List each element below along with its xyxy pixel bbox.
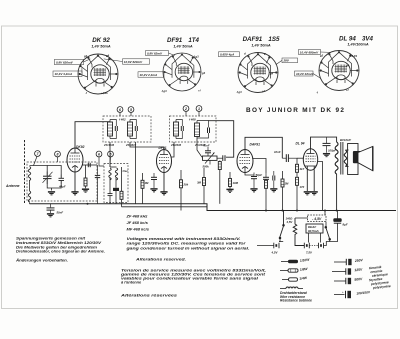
volume control cap 40nF [205, 147, 211, 156]
tube socket DL94 [319, 51, 359, 91]
oscillator coil unit (dashed box) [104, 164, 128, 203]
wire transformer to B+ [336, 174, 338, 211]
IF frequency note [126, 214, 150, 232]
svg-text:1/8W: 1/8W [300, 267, 309, 272]
tube DAF91 (diode + AF pentode) [237, 150, 253, 173]
voltage box DL94 left 1 [299, 50, 321, 55]
DL94 filament wires to ground [306, 170, 308, 191]
ground DK92 cathode [71, 192, 78, 195]
node circle 2 [183, 106, 189, 112]
wire IF1 pri bottom down [109, 142, 111, 167]
svg-text:1/4W: 1/4W [299, 276, 308, 281]
DAF91 plate wire up and over [245, 137, 282, 158]
detector resistor R5 [218, 161, 221, 204]
antenna lead-in (dashed) [24, 140, 26, 204]
node circle 1 [196, 106, 202, 112]
svg-text:7,5V: 7,5V [306, 250, 313, 254]
svg-text:JF 468 kc/s: JF 468 kc/s [127, 220, 149, 225]
svg-text:à l'antenne: à l'antenne [121, 279, 142, 284]
voltage box DK92 left 1 [55, 59, 84, 64]
DEAF90 battery box [306, 224, 323, 233]
svg-text:10M: 10M [233, 181, 239, 185]
volume potentiometer 500k [203, 153, 218, 164]
ground 100pF [323, 154, 330, 157]
svg-text:+f: +f [198, 89, 202, 93]
voltage box DK92 left 2 [53, 71, 82, 76]
lead DK92 box L2 [81, 67, 83, 73]
svg-text:Drehkondensator, ohne Signal a: Drehkondensator, ohne Signal an der Ante… [16, 249, 105, 254]
svg-text:-f,g3: -f,g3 [193, 55, 199, 59]
tuning capacitor C1 (variable) [43, 172, 53, 185]
wire DEAF box to battery [309, 233, 321, 243]
wire DAF91 cathode to bypass [245, 172, 254, 175]
ground DL94 b [311, 192, 318, 195]
AVC resistor R3 [141, 173, 144, 204]
tube socket DF91 [163, 53, 201, 91]
svg-text:DF91: DF91 [159, 146, 167, 150]
svg-text:Änderungen vorbehalten.: Änderungen vorbehalten. [15, 257, 68, 262]
legend resistor 1/4W [282, 276, 308, 281]
legend capacitor 125V ceramic [332, 265, 388, 278]
legend resistor 1/8W [280, 267, 309, 272]
resistor R9 1M [281, 171, 284, 211]
node circle 5 [108, 151, 114, 157]
wire IF1 return to bus [135, 142, 137, 204]
ground antenna circuit [48, 192, 55, 195]
German note [15, 236, 105, 263]
svg-text:g4: g4 [269, 72, 274, 76]
IF1 secondary winding [128, 122, 133, 136]
IF2 primary cap [176, 120, 183, 139]
osc coil winding b [115, 168, 117, 180]
loudspeaker [345, 144, 372, 175]
output transformer T1 [335, 142, 346, 175]
svg-text:+f: +f [346, 88, 350, 92]
svg-text:28V: 28V [283, 59, 290, 63]
legend capacitor 500V styroflex [334, 277, 391, 290]
svg-text:Altérations réservées: Altérations réservées [120, 293, 179, 298]
wire 5b down [130, 112, 132, 116]
voltage box DK92 right [123, 59, 150, 64]
svg-text:Antenne: Antenne [5, 184, 20, 188]
wires antenna circuit [30, 166, 62, 204]
svg-text:170: 170 [300, 185, 305, 189]
grid resistor R1 [84, 165, 87, 188]
svg-text:DK92: DK92 [76, 145, 85, 149]
switch S1 [279, 225, 284, 239]
svg-text:125V: 125V [354, 267, 363, 272]
resistor R8 below C8 [265, 179, 268, 210]
svg-text:10,2V 2,4mA: 10,2V 2,4mA [140, 73, 158, 77]
French note [120, 267, 266, 297]
svg-text:MF 468 kc/s: MF 468 kc/s [127, 227, 150, 232]
chassis bus line left [30, 204, 397, 211]
svg-text:Résistance bobinée: Résistance bobinée [280, 299, 312, 303]
svg-text:ZF/1K/6: ZF/1K/6 [103, 143, 115, 147]
connecting leads socket boxes [82, 52, 331, 79]
switch S2 [325, 227, 331, 241]
svg-text:+: + [342, 290, 344, 294]
svg-text:d: d [244, 52, 246, 56]
DL94 grid leak chain R10 [296, 158, 299, 172]
wire pot wiper stub [209, 160, 211, 164]
English note [125, 236, 249, 262]
IF2 secondary cap [197, 121, 210, 139]
legend resistor 1/10W [281, 258, 310, 264]
wire DAF91 screen to C8 [252, 159, 266, 174]
wire DK92 cathode to ground [74, 172, 76, 192]
wire node7 down [34, 156, 38, 165]
junction dots bus [87, 203, 338, 212]
-4,5V dashed box [308, 215, 327, 222]
svg-text:4k7: 4k7 [299, 167, 305, 171]
svg-text:100/150V: 100/150V [356, 290, 371, 295]
svg-text:0,8V 620mV: 0,8V 620mV [56, 60, 74, 64]
svg-text:f 462: f 462 [119, 118, 126, 122]
wire -4,5V box to switch2 [325, 222, 327, 227]
ground DL94 a [304, 192, 311, 195]
dropping resistor (zigzag) [293, 218, 304, 246]
svg-text:ZF 468 kHz: ZF 468 kHz [126, 214, 148, 219]
voltage box DL94 left 2 [295, 71, 314, 76]
wire 2 down [185, 111, 187, 116]
svg-text:1: 1 [198, 107, 200, 111]
IF1 primary cap [110, 120, 117, 139]
AGC resistor R6 [203, 168, 206, 204]
svg-text:10nF: 10nF [274, 150, 281, 154]
svg-text:20k: 20k [183, 183, 189, 187]
wire node8 down [57, 157, 59, 162]
tube DF91 (IF pentode) [157, 150, 172, 173]
svg-text:BOY JUNIOR MIT DK 92: BOY JUNIOR MIT DK 92 [246, 107, 345, 114]
svg-text:polystyrène: polystyrène [372, 284, 391, 290]
svg-text:4,5V: 4,5V [286, 220, 294, 224]
wire DL94 screen to bus [317, 162, 322, 211]
tube socket DK92 [78, 54, 118, 94]
pin name labels [83, 52, 358, 96]
wire switch to battery [279, 239, 280, 242]
svg-text:ZF/2K/6: ZF/2K/6 [170, 143, 182, 147]
svg-text:Alterations reserved.: Alterations reserved. [135, 257, 186, 262]
voltage box between DK92/DF91 [138, 72, 164, 77]
svg-text:40nF: 40nF [202, 144, 210, 148]
svg-text:BV101/F: BV101/F [340, 138, 351, 142]
svg-text:1,4V 50mA: 1,4V 50mA [251, 44, 270, 48]
wire 1 down [198, 111, 200, 116]
ground C9 [270, 189, 277, 192]
voltage box DAF91 right 1 [282, 58, 298, 63]
node circle 8 [55, 151, 61, 157]
osc wires [110, 167, 122, 204]
detector cap C7 [217, 155, 225, 161]
filament battery 4,5V [257, 242, 283, 249]
svg-text:3M: 3M [197, 181, 202, 185]
svg-text:DAF91 1S5: DAF91 1S5 [243, 36, 280, 43]
decoupling cap 50nF to ground [47, 204, 55, 213]
grid capacitor C3 [88, 163, 90, 167]
svg-text:-f,g3: -f,g3 [236, 90, 242, 94]
voltage box DF91 top-left [146, 51, 169, 56]
svg-text:1M: 1M [285, 182, 290, 186]
svg-text:g2: g2 [319, 54, 324, 58]
coupling cap C8 [263, 173, 269, 179]
osc trimmer [108, 194, 113, 196]
svg-text:0,8V 62mV: 0,8V 62mV [147, 51, 163, 55]
svg-text:1/10W: 1/10W [300, 258, 311, 263]
antenna coil unit (dashed box) [27, 162, 97, 201]
grid resistor R7 10M [229, 172, 232, 189]
svg-text:0,65V 4μA: 0,65V 4μA [220, 53, 234, 57]
wire node5 down [109, 157, 112, 167]
IF2 primary winding [174, 122, 179, 136]
ground R1 [82, 189, 89, 192]
node circle 5b [128, 107, 134, 113]
electrolytic cap 8uF [330, 211, 342, 242]
ground DAF91 cathode [250, 189, 257, 192]
svg-text:DAF91: DAF91 [250, 143, 261, 147]
svg-text:f 468: f 468 [189, 118, 196, 122]
wire bus to filament switch [283, 211, 285, 225]
legend electrolytic capacitor [334, 290, 371, 298]
svg-text:g4: g4 [201, 71, 206, 75]
DL94 plate wire to transformer [311, 137, 337, 149]
legend capacitor 250V [334, 258, 364, 265]
voltage box DAF91 top-left [219, 52, 240, 57]
tone cap 100pF [323, 137, 331, 153]
svg-text:g: g [263, 53, 266, 56]
svg-text:50nF: 50nF [57, 211, 64, 215]
legend wirewound resistor [280, 287, 303, 289]
svg-text:10,4V 4,2mA: 10,4V 4,2mA [55, 72, 73, 76]
wire node6 down [99, 157, 104, 166]
DF91 plate wire to IF2 [164, 142, 174, 157]
lead DAF91 box R1 [276, 60, 282, 64]
svg-text:4,5V: 4,5V [271, 250, 279, 254]
wire bus to -4,5V box [295, 211, 325, 219]
lead DK92 box L1 [84, 59, 91, 62]
svg-text:ZF/1K/7: ZF/1K/7 [125, 143, 137, 147]
coupling cap 10nF [282, 154, 297, 162]
wire IF2 sec to detector [197, 138, 202, 157]
svg-text:90,5mA: 90,5mA [308, 229, 319, 233]
DF91 cathode wire [163, 172, 165, 192]
antenna coil winding L1b [28, 191, 31, 202]
trimmer C2 [59, 175, 65, 185]
svg-text:500k: 500k [203, 165, 210, 169]
svg-text:DF91 1T4: DF91 1T4 [167, 37, 200, 44]
svg-text:-f: -f [316, 91, 319, 95]
wire 6b down [119, 112, 121, 116]
svg-text:-f,g3: -f,g3 [161, 89, 167, 93]
wire grid node to DL94 [297, 157, 304, 159]
svg-text:gang condenser turned in witho: gang condenser turned in without signal … [125, 245, 249, 250]
svg-text:DL 94 3V4: DL 94 3V4 [339, 36, 373, 43]
tube DL94 (output pentode) [303, 149, 317, 171]
anode battery 7,5V (double cell) [300, 240, 330, 248]
svg-text:1,4V/100mA: 1,4V/100mA [347, 43, 369, 47]
node circle 6b [117, 107, 123, 113]
DAF91 cathode bypass cap [251, 173, 257, 189]
svg-text:8: 8 [57, 153, 59, 157]
tube DK92 (triode-hexode converter) [67, 148, 83, 172]
svg-text:8μF: 8μF [343, 223, 348, 227]
IF2 secondary winding [195, 123, 200, 137]
osc coil winding a [109, 168, 111, 180]
ground 50nF [47, 214, 54, 217]
second bus segment [122, 206, 208, 208]
svg-text:valables pour condensateur var: valables pour condensateur variable ferm… [121, 275, 259, 280]
osc feedback resistor R2 [120, 191, 123, 207]
ground R7 [226, 189, 233, 192]
svg-text:1M: 1M [145, 181, 150, 185]
svg-text:- 4,5V: - 4,5V [312, 217, 322, 221]
wire top rail to DAF91 [209, 121, 234, 158]
node circle 7 [35, 151, 41, 157]
svg-text:+f,Gs: +f,Gs [101, 91, 108, 95]
svg-text:50pF: 50pF [256, 173, 263, 177]
svg-text:10,2V 42mA: 10,2V 42mA [296, 72, 313, 76]
svg-text:10,6V 620mV: 10,6V 620mV [124, 60, 143, 64]
wire DK92 plate to top rail [75, 122, 110, 149]
svg-text:g4: g4 [105, 54, 110, 58]
resistor R11 [296, 172, 299, 210]
svg-text:g2: g2 [83, 54, 88, 58]
svg-text:1,4V 50mA: 1,4V 50mA [173, 45, 192, 49]
wire IF1 sec to DF91 grid [130, 142, 164, 150]
svg-text:500V: 500V [354, 277, 363, 282]
svg-text:g4: g4 [345, 64, 350, 68]
svg-text:250V: 250V [354, 258, 364, 263]
IF transformer 2 (dashed box) [170, 116, 217, 142]
IF transformer 1 (dashed box) [103, 116, 151, 142]
lead DF91 box TL [169, 53, 175, 56]
node circle 6 [96, 151, 102, 157]
svg-text:DK 92: DK 92 [92, 37, 110, 44]
tube socket DAF91 [238, 53, 278, 93]
antenna coil winding L1a [28, 167, 31, 181]
lead DL94 box L1 [321, 51, 332, 53]
bypass cap C5 [151, 173, 157, 188]
IF1 secondary cap [130, 120, 137, 139]
wire DK92 grid [83, 164, 98, 166]
ground DF91 [160, 192, 167, 195]
svg-text:10,4V 680mV: 10,4V 680mV [300, 50, 319, 54]
svg-text:DL 94: DL 94 [296, 142, 305, 146]
svg-text:2: 2 [184, 107, 187, 111]
ground C5 [150, 189, 157, 192]
lead DL94 box L2 [313, 74, 321, 79]
svg-text:Osc: Osc [123, 169, 129, 173]
svg-text:1,4V 50mA: 1,4V 50mA [91, 45, 110, 49]
osc padder capacitor (block) [113, 188, 119, 191]
legend wirewound caption [280, 291, 312, 303]
screen resistor R4 [180, 170, 183, 211]
lead DK92 box R1 [104, 59, 123, 62]
padding capacitor C4 [95, 165, 100, 204]
svg-text:f/1,f/3: f/1,f/3 [350, 54, 358, 58]
cap C9 [273, 171, 275, 188]
IF1 primary winding [108, 122, 113, 136]
svg-text:-f: -f [85, 91, 88, 95]
